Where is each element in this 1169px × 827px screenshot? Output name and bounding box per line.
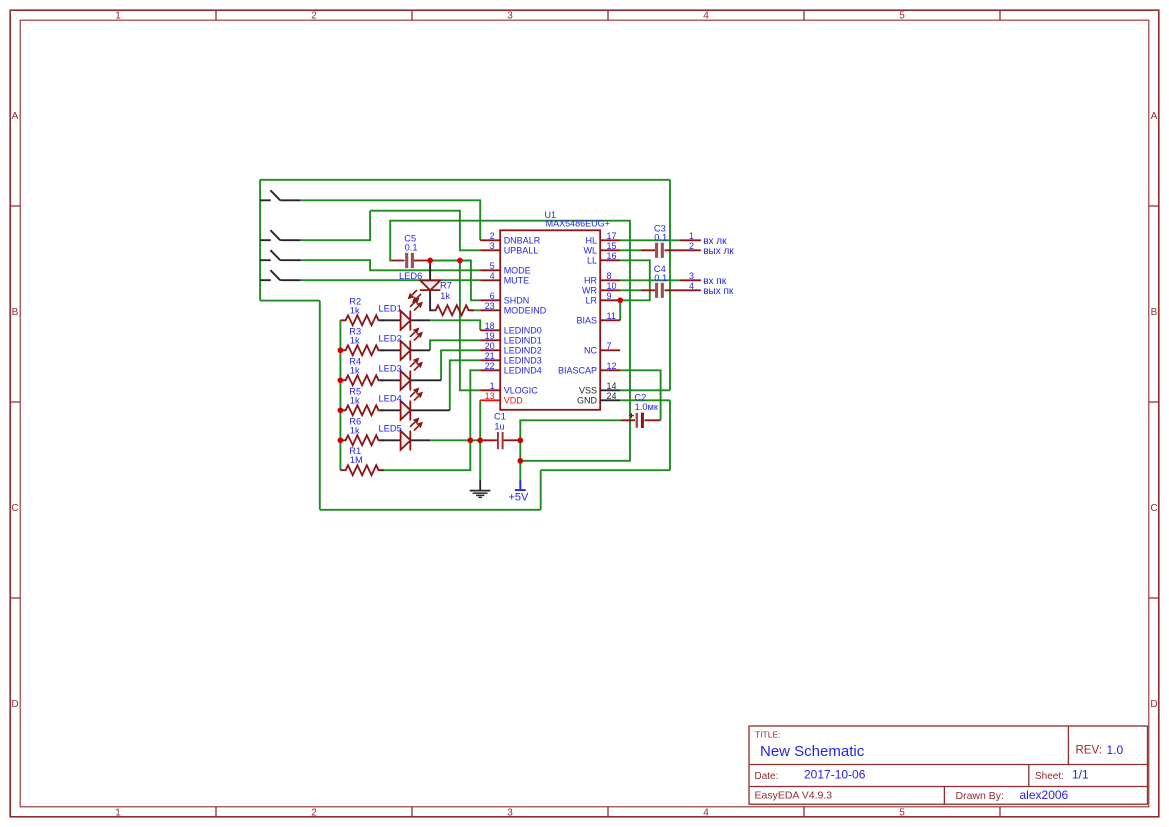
svg-text:24: 24 <box>607 391 617 401</box>
svg-text:C: C <box>1150 503 1157 514</box>
pin 7 <box>600 349 620 351</box>
capacitor C4 plates <box>657 283 663 298</box>
wire bottom right riser <box>540 470 542 510</box>
pin 8 <box>600 279 620 281</box>
resistor R7 <box>433 305 474 315</box>
wire c5 net to pin6 <box>430 261 480 301</box>
node c5-vlogic <box>457 258 463 264</box>
svg-text:1k: 1k <box>350 395 360 405</box>
frame bottom ticks <box>216 807 1000 817</box>
svg-text:+5V: +5V <box>509 491 530 503</box>
pin 24 gnd <box>600 399 620 401</box>
resistor R1 <box>340 465 383 475</box>
svg-text:3: 3 <box>689 271 694 281</box>
wire pin9 to pin11 <box>619 300 621 320</box>
capacitor C2 leads (polarized) <box>621 419 661 421</box>
port pin 3 <box>680 279 701 281</box>
switch S2 <box>260 230 301 240</box>
svg-text:alex2006: alex2006 <box>1020 788 1069 802</box>
svg-text:0.1: 0.1 <box>405 242 418 252</box>
wire switch1 to pin2 <box>301 200 481 240</box>
svg-text:TITLE:: TITLE: <box>755 730 781 740</box>
wire vlogic vertical <box>460 261 480 391</box>
pin 9 <box>600 299 620 301</box>
pin 16 <box>600 259 620 261</box>
svg-text:4: 4 <box>703 11 709 22</box>
svg-text:18: 18 <box>485 321 495 331</box>
pin 20 <box>480 349 500 351</box>
svg-text:LEDIND2: LEDIND2 <box>504 346 542 356</box>
pin 21 <box>480 359 500 361</box>
LED2 <box>380 329 430 361</box>
frame top ticks <box>216 10 1000 20</box>
switch S4 <box>260 270 301 280</box>
wire pin10 to c4 <box>620 289 641 291</box>
frame right ticks <box>1149 206 1159 598</box>
svg-text:HR: HR <box>584 276 597 286</box>
svg-text:1k: 1k <box>350 365 360 375</box>
wire switch4 to pin4 <box>301 279 481 281</box>
svg-text:15: 15 <box>607 241 617 251</box>
wire switch2 up <box>301 211 370 241</box>
svg-text:1: 1 <box>115 11 121 22</box>
svg-text:SHDN: SHDN <box>504 296 530 306</box>
svg-text:20: 20 <box>485 341 495 351</box>
svg-text:LED3: LED3 <box>379 364 402 374</box>
svg-text:19: 19 <box>485 331 495 341</box>
svg-text:R7: R7 <box>440 281 452 291</box>
svg-text:NC: NC <box>584 346 597 356</box>
node rail r5 <box>338 407 344 413</box>
svg-text:5: 5 <box>490 261 495 271</box>
wire pin16 loop <box>620 260 650 300</box>
svg-text:1/1: 1/1 <box>1072 768 1089 782</box>
svg-text:14: 14 <box>607 381 617 391</box>
pin numbers left <box>485 231 495 401</box>
wire pin8 to port3 <box>620 279 680 281</box>
svg-text:C2: C2 <box>634 393 646 403</box>
wire led1 to pin18 <box>430 320 480 330</box>
capacitor C5 leads <box>392 260 430 262</box>
svg-text:2017-10-06: 2017-10-06 <box>804 768 866 782</box>
svg-text:WL: WL <box>584 246 598 256</box>
svg-text:VDD: VDD <box>504 396 524 406</box>
wire pin22 to r1 <box>380 370 480 470</box>
pin 10 <box>600 289 620 291</box>
resistor R4 <box>340 375 383 385</box>
capacitor C2 plates <box>636 413 639 428</box>
wire gnd horizontal to pin24 column <box>541 469 670 471</box>
LED6 (pointing down) <box>409 261 441 311</box>
pin 14 vss <box>600 389 620 391</box>
ground symbol <box>470 480 491 498</box>
wire pin15 to c3 <box>620 249 641 251</box>
pin 1 <box>480 389 500 391</box>
node c5-led6 <box>427 258 433 264</box>
svg-text:4: 4 <box>703 808 709 819</box>
svg-text:1k: 1k <box>440 291 450 301</box>
svg-text:1: 1 <box>115 808 121 819</box>
svg-text:Date:: Date: <box>755 771 779 782</box>
svg-text:вых пк: вых пк <box>703 286 734 297</box>
resistor R2 <box>340 315 383 325</box>
svg-text:1.0мк: 1.0мк <box>635 402 659 412</box>
svg-text:3: 3 <box>490 241 495 251</box>
wire led2 to pin19 <box>430 340 480 350</box>
pin 5 <box>480 269 500 271</box>
svg-text:VSS: VSS <box>579 386 597 396</box>
capacitor C3 leads <box>641 249 680 251</box>
pin 23 <box>480 309 500 311</box>
wire pin24 gnd <box>620 399 670 401</box>
svg-text:LL: LL <box>587 256 597 266</box>
port pin 4 <box>680 289 701 291</box>
svg-text:21: 21 <box>485 351 495 361</box>
wire right vss vertical <box>669 180 671 390</box>
svg-text:A: A <box>1151 111 1158 122</box>
capacitor C1 leads <box>484 439 521 441</box>
svg-text:GND: GND <box>577 396 598 406</box>
svg-text:LED6: LED6 <box>399 271 422 281</box>
svg-text:MODE: MODE <box>504 266 531 276</box>
svg-text:EasyEDA V4.9.3: EasyEDA V4.9.3 <box>755 790 833 802</box>
node lr-bias <box>617 297 623 303</box>
switch S1 <box>260 190 301 200</box>
wire left rail vertical <box>259 180 261 301</box>
port pin 1 <box>680 239 701 241</box>
node c1 plus5 <box>517 437 523 443</box>
svg-text:5: 5 <box>899 808 905 819</box>
svg-text:2: 2 <box>311 11 317 22</box>
svg-text:11: 11 <box>607 311 616 321</box>
resistor R3 <box>340 345 383 355</box>
svg-text:D: D <box>11 699 18 710</box>
wire pin17 to port1 <box>620 239 680 241</box>
wire led3 to pin20 <box>441 350 480 380</box>
svg-text:LED5: LED5 <box>379 424 402 434</box>
svg-text:MAX5486EUG+: MAX5486EUG+ <box>546 219 610 229</box>
svg-text:9: 9 <box>607 291 612 301</box>
frame left ticks <box>10 206 20 598</box>
svg-text:D: D <box>1150 699 1157 710</box>
wire left rail lower vertical <box>319 301 321 510</box>
svg-text:LEDIND1: LEDIND1 <box>504 336 542 346</box>
pin 18 <box>480 329 500 331</box>
node rail r4 <box>338 377 344 383</box>
wire pin24 vertical <box>669 400 671 470</box>
wire switch3 to pin5 <box>301 260 481 270</box>
pin 22 <box>480 369 500 371</box>
node plus5 branch <box>517 458 523 464</box>
svg-text:22: 22 <box>485 361 495 371</box>
svg-text:13: 13 <box>485 391 495 401</box>
svg-text:3: 3 <box>507 11 513 22</box>
svg-text:DNBALR: DNBALR <box>504 236 541 246</box>
LED3 <box>380 359 441 391</box>
pin 13 vdd <box>480 399 500 401</box>
wire pin12 to c2 <box>620 370 660 420</box>
svg-text:1k: 1k <box>350 305 360 315</box>
pin 12 <box>600 369 620 371</box>
svg-text:MODEIND: MODEIND <box>504 306 547 316</box>
wire resistor left rail <box>339 320 341 470</box>
svg-text:1k: 1k <box>350 425 360 435</box>
svg-text:2: 2 <box>490 231 495 241</box>
LED1 <box>380 299 430 331</box>
switch S3 <box>260 250 301 260</box>
pin 15 <box>600 249 620 251</box>
wire r7 to pin23 <box>470 309 480 311</box>
node led5 r1 <box>467 437 473 443</box>
svg-text:LED4: LED4 <box>379 394 402 404</box>
pin 4 <box>480 279 500 281</box>
svg-text:LED1: LED1 <box>379 304 402 314</box>
capacitor C2 plus sign <box>629 413 634 418</box>
pin 11 <box>600 319 620 321</box>
svg-text:4: 4 <box>689 281 694 291</box>
wire top rail gnd <box>260 179 670 181</box>
svg-text:BIAS: BIAS <box>576 316 597 326</box>
svg-text:B: B <box>12 307 19 318</box>
svg-text:12: 12 <box>607 361 617 371</box>
wire left rail jog horizontal <box>260 300 320 302</box>
svg-text:BIASCAP: BIASCAP <box>558 366 597 376</box>
svg-text:LED2: LED2 <box>379 334 402 344</box>
svg-text:7: 7 <box>607 341 612 351</box>
svg-text:HL: HL <box>585 236 597 246</box>
svg-text:1.0: 1.0 <box>1107 743 1124 757</box>
node rail r3 <box>338 347 344 353</box>
svg-text:1k: 1k <box>350 335 360 345</box>
wire led4 to pin21 <box>450 360 480 410</box>
node rail r6 <box>338 437 344 443</box>
svg-text:2: 2 <box>311 808 317 819</box>
svg-text:0.1: 0.1 <box>654 232 667 242</box>
svg-text:LEDIND3: LEDIND3 <box>504 356 542 366</box>
pin names right <box>558 236 598 406</box>
svg-text:5: 5 <box>899 11 905 22</box>
svg-text:6: 6 <box>490 291 495 301</box>
resistor R5 <box>340 405 383 415</box>
LED5 <box>380 419 430 451</box>
svg-text:C: C <box>11 503 18 514</box>
resistor R6 <box>340 435 383 445</box>
svg-text:3: 3 <box>507 808 513 819</box>
svg-text:MUTE: MUTE <box>504 276 530 286</box>
svg-text:C1: C1 <box>494 411 506 421</box>
wire led5 row to c1 <box>430 439 486 441</box>
svg-text:New Schematic: New Schematic <box>760 743 865 760</box>
svg-text:23: 23 <box>485 301 495 311</box>
wire plus5 to c5 left: riser x630 <box>390 221 630 461</box>
svg-text:LEDIND4: LEDIND4 <box>504 366 542 376</box>
svg-text:2: 2 <box>689 241 694 251</box>
svg-text:VLOGIC: VLOGIC <box>504 386 539 396</box>
node led5 vdd <box>477 437 483 443</box>
pin 19 <box>480 339 500 341</box>
svg-text:4: 4 <box>490 271 495 281</box>
capacitor C5 plates <box>407 253 413 268</box>
svg-text:Drawn By:: Drawn By: <box>956 790 1004 802</box>
capacitor C1 plates <box>498 432 503 449</box>
wire c2 left to plus5 <box>520 420 621 440</box>
svg-text:0.1: 0.1 <box>654 273 667 283</box>
wire switch2 across <box>370 211 480 251</box>
capacitor C4 leads <box>641 289 680 291</box>
wire bottom rail <box>320 509 541 511</box>
pin 3 <box>480 249 500 251</box>
svg-text:17: 17 <box>607 231 617 241</box>
wire c1 right to plus5 stem <box>519 440 521 480</box>
svg-text:1u: 1u <box>494 421 504 431</box>
LED4 <box>380 389 449 421</box>
svg-text:16: 16 <box>607 251 617 261</box>
pin 2 <box>480 239 500 241</box>
pin 17 <box>600 239 620 241</box>
svg-text:LEDIND0: LEDIND0 <box>504 326 542 336</box>
svg-text:Sheet:: Sheet: <box>1035 771 1064 782</box>
svg-text:REV:: REV: <box>1076 745 1102 757</box>
capacitor C3 plates <box>657 243 663 258</box>
svg-text:A: A <box>12 111 19 122</box>
svg-text:LR: LR <box>585 296 597 306</box>
IC U1 MAX5486EUG+ body <box>500 230 600 409</box>
svg-text:B: B <box>1151 307 1158 318</box>
port pin 2 <box>680 249 701 251</box>
wire pin14 vss <box>620 389 670 391</box>
svg-text:8: 8 <box>607 271 612 281</box>
svg-text:WR: WR <box>582 286 597 296</box>
+5V power flag <box>509 480 530 503</box>
wire vdd ground vertical <box>479 400 481 480</box>
svg-text:1M: 1M <box>350 455 363 465</box>
svg-text:вых лк: вых лк <box>703 246 734 257</box>
svg-text:1: 1 <box>490 381 495 391</box>
pin 6 <box>480 299 500 301</box>
svg-text:UPBALL: UPBALL <box>504 246 539 256</box>
svg-text:10: 10 <box>607 281 617 291</box>
svg-text:1: 1 <box>689 231 694 241</box>
